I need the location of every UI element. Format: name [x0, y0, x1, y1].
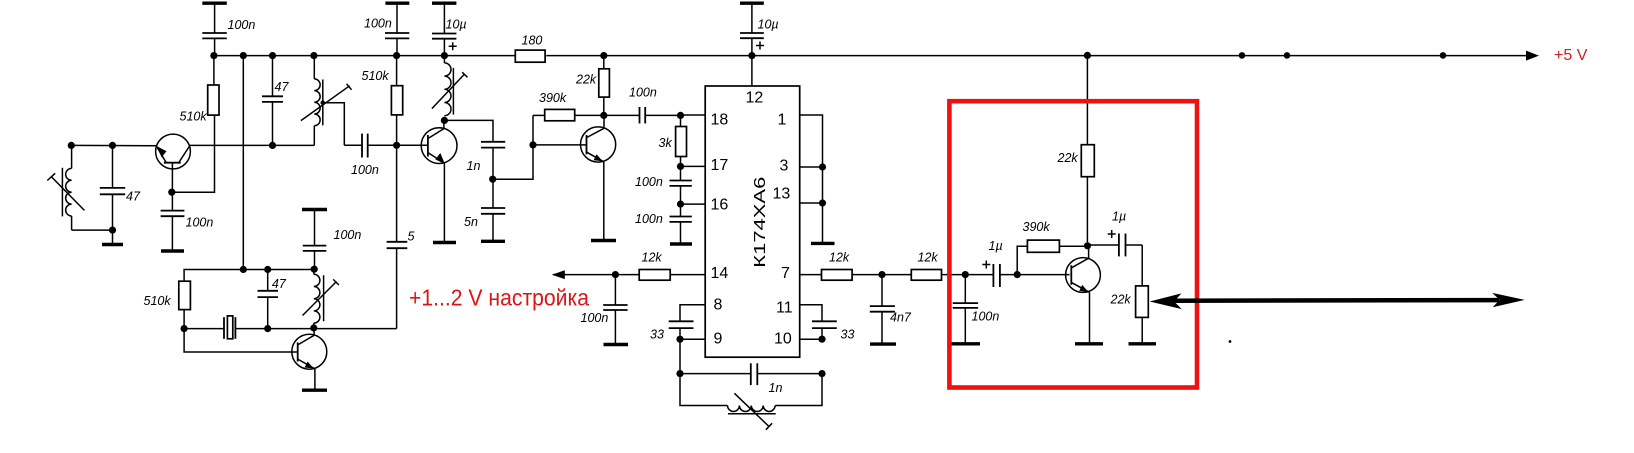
svg-text:100n: 100n: [635, 212, 663, 226]
svg-text:22k: 22k: [1057, 151, 1079, 165]
wire oscillator bottom line left: [184, 328, 224, 330]
inductor L2 tuned coil with tap (variable): [301, 56, 352, 146]
wire R3 right lead to 22k node: [575, 114, 604, 116]
transistor Q5 oscillator: [292, 328, 327, 390]
resistor R11 390k feedback: [1027, 240, 1059, 252]
capacitor C4 100n top bypass x397: [385, 3, 409, 55]
svg-text:100n: 100n: [972, 310, 1000, 324]
wire R7 to pin17 node: [680, 157, 682, 167]
svg-text:47: 47: [272, 277, 287, 291]
node osc top x314: [311, 266, 318, 273]
wire pin 13: [800, 202, 823, 204]
capacitor C22 4n7: [870, 275, 895, 344]
node rail x752: [748, 52, 755, 59]
wire long vertical rail to oscillator: [242, 56, 244, 270]
resistor R3 390k feedback: [545, 109, 575, 120]
ground C9: [481, 240, 505, 243]
node rail x214: [210, 52, 217, 59]
capacitor C24 1u coupling polarized: [965, 261, 1017, 288]
node red box input: [962, 271, 969, 278]
svg-text:13: 13: [773, 186, 791, 203]
wire pin17: [681, 165, 706, 167]
node osc bottom x267: [264, 325, 271, 332]
wire R13 to ground: [1141, 317, 1143, 343]
ground Q1 base cap: [161, 249, 184, 252]
capacitor C20 33 pins 11-10: [812, 321, 837, 339]
svg-text:4n7: 4n7: [890, 311, 912, 325]
node Q3 collector: [600, 112, 607, 119]
resistor R13 22k volume: [1136, 286, 1149, 318]
capacitor C7 100n tap coupling: [344, 134, 396, 158]
wire pin 11: [800, 305, 822, 322]
capacitor C1 100n top-left bypass: [202, 3, 227, 55]
resistor R6 22k Q3 load: [599, 69, 610, 97]
wire R4 to bottom line: [183, 310, 185, 329]
resistor R1 510k Q1 bias: [208, 85, 219, 115]
svg-text:10µ: 10µ: [446, 18, 467, 32]
wire R12 to collector node: [1086, 177, 1088, 246]
svg-text:510k: 510k: [144, 294, 172, 308]
svg-text:1µ: 1µ: [1112, 210, 1126, 224]
svg-text:12: 12: [746, 90, 764, 107]
svg-text:9: 9: [714, 331, 723, 348]
wire R1 to rail: [213, 56, 215, 85]
svg-text:100n: 100n: [351, 163, 379, 177]
resistor R2 510k x397: [391, 86, 402, 115]
wire pin9 down: [679, 339, 681, 373]
transistor Q1 common-base input: [156, 134, 191, 192]
capacitor C15 100n pin16 chain: [670, 204, 692, 243]
wire pin 3: [800, 166, 823, 168]
arrowhead big pointer left: [1150, 293, 1182, 309]
node stray dot right: [1229, 340, 1232, 343]
svg-text:100n: 100n: [228, 18, 256, 32]
inductor L1 antenna coil (variable): [47, 145, 84, 230]
node antenna top left: [68, 142, 75, 149]
wire pin18 node to R7: [680, 115, 682, 126]
node C8/C9 junction: [489, 176, 496, 183]
node rail x243: [240, 52, 247, 59]
node pin17: [677, 163, 684, 170]
node pin 9: [676, 336, 683, 343]
capacitor C19 33 pins 8-9: [669, 321, 694, 339]
wire Q3 base: [533, 144, 587, 146]
wire collector to C8: [444, 120, 493, 141]
svg-text:7: 7: [781, 265, 790, 282]
svg-text:100n: 100n: [186, 216, 214, 230]
ground C15: [670, 242, 692, 245]
capacitor C25 1u output polarized: [1088, 230, 1143, 256]
node antenna bottom: [109, 227, 116, 234]
svg-text:100n: 100n: [334, 228, 362, 242]
node pin 3: [819, 163, 826, 170]
node rail x1242: [1239, 52, 1246, 59]
svg-text:12k: 12k: [918, 251, 939, 265]
svg-text:5: 5: [408, 230, 415, 244]
capacitor C2 47 x272: [262, 56, 283, 146]
ground Q2 emitter: [433, 241, 456, 244]
wire pin 10: [800, 338, 822, 340]
inductor L4 oscillator coil (variable): [303, 269, 339, 328]
resistor R7 3k: [676, 127, 687, 157]
svg-text:10µ: 10µ: [758, 18, 779, 32]
wire pin18: [681, 114, 706, 116]
capacitor C21 1n resonator: [680, 363, 822, 385]
capacitor C3 100n Q1 base bypass: [161, 192, 185, 250]
node collector line x272: [269, 142, 276, 149]
capacitor C14 100n pin17 chain: [670, 166, 692, 204]
wire +5V rail right part: [546, 55, 1528, 57]
arrow big pointer shaft: [1172, 298, 1499, 303]
ground C23: [951, 342, 981, 345]
node osc top x243: [240, 266, 247, 273]
resistor R12 22k Q4 load: [1081, 145, 1094, 177]
wire R3 left lead: [533, 114, 545, 116]
node rail x444: [441, 52, 448, 59]
svg-text:14: 14: [711, 265, 729, 282]
ground Q3 emitter: [591, 239, 616, 242]
capacitor C18 100n tuning filter: [603, 275, 627, 344]
wire Q5 base: [184, 329, 298, 352]
capacitor C9 5n: [481, 179, 505, 241]
wire R11 left lead: [1017, 246, 1027, 274]
capacitor C16 100n oscillator bypass: [302, 210, 327, 270]
node osc top x267: [264, 266, 271, 273]
wire Q4 base lead: [1017, 274, 1069, 276]
svg-text:17: 17: [711, 157, 729, 174]
node Q4 base: [1014, 271, 1021, 278]
wire antenna tank bottom: [72, 229, 113, 231]
svg-text:+5 V: +5 V: [1554, 47, 1588, 64]
node rail x397: [393, 52, 400, 59]
svg-text:390k: 390k: [539, 91, 567, 105]
svg-text:100n: 100n: [364, 17, 392, 31]
node rail x1443: [1440, 52, 1447, 59]
node Q3 base junction: [529, 141, 536, 148]
node rail x1287: [1284, 52, 1291, 59]
svg-text:1n: 1n: [769, 381, 783, 395]
wire R11 right lead: [1059, 245, 1087, 247]
node osc bottom left: [181, 325, 188, 332]
svg-text:12k: 12k: [642, 251, 663, 265]
inductor L5 detector coil (variable): [680, 374, 822, 430]
svg-text:390k: 390k: [1023, 220, 1051, 234]
ground pins 1-3-13: [811, 242, 835, 245]
wire pin 7: [800, 274, 822, 276]
svg-text:8: 8: [714, 297, 723, 314]
node pin 13: [819, 199, 826, 206]
ground Q4 emitter: [1075, 342, 1103, 345]
wire Q2 base: [397, 144, 428, 146]
svg-text:100n: 100n: [635, 175, 663, 189]
capacitor C17 47 oscillator: [258, 270, 279, 329]
wire rail to R6: [603, 56, 605, 69]
wire pin 12: [751, 56, 753, 86]
svg-text:47: 47: [126, 190, 141, 204]
svg-text:10: 10: [774, 331, 792, 348]
svg-text:1n: 1n: [467, 159, 481, 173]
wire C8 junction to R3/Q3 base: [493, 115, 533, 179]
ground antenna tank: [102, 230, 123, 244]
arrowhead big pointer right: [1492, 293, 1525, 307]
svg-text:К174ХА6: К174ХА6: [752, 177, 769, 268]
resistor R5 180 series in rail: [515, 50, 545, 62]
svg-text:33: 33: [841, 328, 855, 342]
svg-text:100n: 100n: [581, 311, 609, 325]
wire R8 to arrow: [553, 274, 639, 276]
node pin16: [677, 201, 684, 208]
node 4n7: [878, 271, 885, 278]
svg-text:33: 33: [650, 328, 664, 342]
svg-text:3k: 3k: [659, 136, 673, 150]
node osc bottom x314: [310, 324, 317, 331]
resistor R9 12k pin7: [822, 270, 853, 281]
ground Q5 emitter: [302, 389, 327, 392]
wire pin 8: [680, 305, 705, 322]
svg-text:11: 11: [776, 300, 793, 317]
capacitor C12 10u polarized x752: [740, 3, 764, 55]
ground C18: [604, 343, 629, 346]
svg-text:510k: 510k: [180, 110, 208, 124]
resistor R8 12k pin14: [639, 270, 670, 281]
svg-text:+1...2 V настройка: +1...2 V настройка: [409, 285, 589, 311]
wire oscillator top line: [184, 270, 314, 282]
node antenna top right: [109, 142, 116, 149]
node 1n right: [818, 370, 825, 377]
svg-text:22k: 22k: [1110, 293, 1132, 307]
svg-text:22k: 22k: [575, 73, 597, 87]
wire rail to R12: [1086, 56, 1088, 145]
wire L2 tap: [323, 103, 345, 146]
svg-text:5n: 5n: [464, 215, 478, 229]
node Q2 base junction: [393, 142, 400, 149]
svg-text:1µ: 1µ: [989, 239, 1003, 253]
transistor Q4 output: [1066, 246, 1101, 343]
svg-text:180: 180: [522, 33, 543, 47]
wire antenna tank top: [71, 144, 156, 146]
capacitor C10 5p to oscillator: [387, 145, 408, 328]
svg-text:100n: 100n: [629, 86, 657, 100]
node L2 tap: [321, 100, 326, 105]
svg-text:510k: 510k: [362, 69, 390, 83]
node Q4 collector: [1084, 242, 1091, 249]
ground R13: [1129, 342, 1157, 345]
node pin18: [677, 112, 684, 119]
arrowhead +5V rail end: [1526, 51, 1539, 61]
node rail x272: [269, 52, 276, 59]
wire R9 to node: [852, 274, 911, 276]
node tuning voltage: [612, 271, 619, 278]
op-amp U1 K174XA6 body: [705, 86, 800, 357]
capacitor C0 47 antenna tank: [100, 145, 125, 230]
wire C25 to R13: [1141, 245, 1143, 286]
capacitor C8 1n: [481, 142, 505, 179]
node rail x604: [600, 52, 607, 59]
inductor L3 Q2 collector coil (variable): [432, 56, 468, 116]
wire +5V rail left part: [214, 55, 515, 57]
wire pin 9: [680, 338, 705, 340]
svg-text:47: 47: [275, 80, 290, 94]
red highlight box: [949, 101, 1197, 387]
node rail x314: [310, 52, 317, 59]
capacitor C23 100n: [953, 275, 978, 344]
wire R2 leads: [396, 56, 398, 146]
wire oscillator bottom line right: [235, 328, 396, 330]
wire R6 to collector node: [603, 97, 605, 115]
node pin 10: [818, 336, 825, 343]
arrowhead tuning voltage output: [552, 270, 565, 279]
wire pin 14: [670, 274, 705, 276]
transistor Q3: [581, 115, 616, 240]
node rail x1087: [1084, 52, 1091, 59]
svg-text:12k: 12k: [829, 251, 850, 265]
capacitor C13 100n coupling to pin18: [604, 107, 681, 123]
resistor R4 510k oscillator bias: [179, 281, 191, 309]
node Q2 collector: [441, 117, 448, 124]
wire Q1 base to R1: [172, 115, 215, 192]
wire Q1 collector line: [190, 144, 315, 146]
transistor Q2: [421, 120, 457, 242]
wire pin 1: [800, 115, 823, 243]
resistor R10 12k output series: [911, 270, 941, 281]
svg-text:18: 18: [711, 112, 729, 129]
svg-text:16: 16: [711, 197, 729, 214]
svg-text:1: 1: [778, 112, 787, 129]
ground C22: [870, 342, 896, 345]
svg-text:3: 3: [780, 158, 789, 175]
capacitor C6 10u polarized x444: [432, 3, 457, 55]
crystal ZQ1: [224, 316, 235, 339]
node Q1 base: [168, 189, 175, 196]
node 1n left: [676, 370, 683, 377]
wire pin16: [681, 203, 706, 205]
wire R10 to red box input: [942, 274, 966, 276]
